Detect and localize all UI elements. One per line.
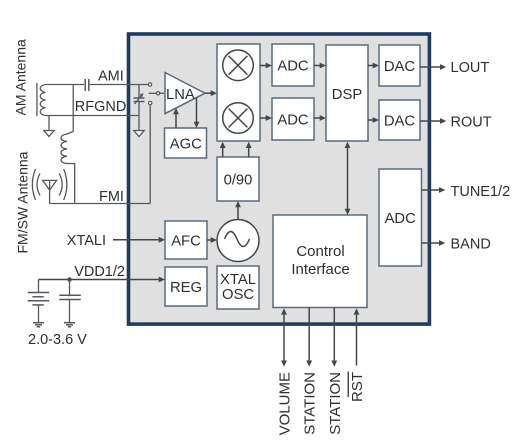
svg-text:VDD1/2: VDD1/2 — [74, 264, 125, 280]
svg-text:STATION: STATION — [327, 372, 344, 435]
svg-text:XTALI: XTALI — [67, 233, 106, 249]
svg-text:LNA: LNA — [166, 87, 195, 103]
svg-text:AMI: AMI — [98, 69, 124, 85]
svg-text:AGC: AGC — [170, 137, 202, 153]
svg-text:AFC: AFC — [171, 233, 201, 249]
svg-text:REG: REG — [170, 280, 202, 296]
svg-text:0/90: 0/90 — [224, 172, 253, 188]
svg-text:XTAL: XTAL — [220, 272, 256, 288]
svg-text:FMI: FMI — [99, 189, 124, 205]
svg-text:ADC: ADC — [277, 58, 309, 74]
svg-text:Interface: Interface — [291, 261, 349, 278]
svg-text:FM/SW Antenna: FM/SW Antenna — [15, 151, 31, 253]
svg-text:RFGND: RFGND — [75, 99, 127, 115]
svg-text:DSP: DSP — [332, 87, 363, 103]
svg-text:STATION: STATION — [302, 372, 319, 435]
svg-text:TUNE1/2: TUNE1/2 — [451, 184, 511, 200]
svg-text:BAND: BAND — [451, 237, 491, 253]
svg-text:DAC: DAC — [384, 113, 416, 129]
svg-text:RST: RST — [349, 372, 366, 402]
svg-text:ADC: ADC — [277, 112, 309, 128]
svg-text:VOLUME: VOLUME — [276, 372, 293, 435]
svg-text:AM Antenna: AM Antenna — [13, 39, 29, 115]
svg-text:2.0-3.6 V: 2.0-3.6 V — [28, 332, 87, 348]
svg-text:OSC: OSC — [222, 287, 254, 303]
svg-text:LOUT: LOUT — [451, 60, 490, 76]
svg-text:ROUT: ROUT — [451, 115, 492, 131]
svg-text:Control: Control — [296, 243, 344, 260]
svg-text:ADC: ADC — [385, 211, 417, 227]
svg-text:DAC: DAC — [384, 59, 416, 75]
